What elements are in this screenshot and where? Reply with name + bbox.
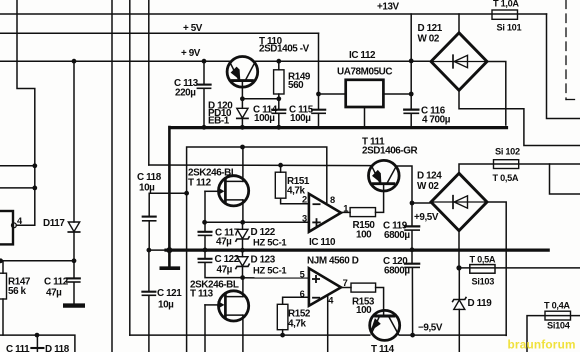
node C117 bus2 — [203, 248, 208, 253]
wire vertical x=148.8 to wire2 — [148, 0, 150, 165]
svg-text:4: 4 — [17, 216, 23, 226]
node IC112 in — [409, 92, 414, 97]
svg-text:47µ: 47µ — [217, 265, 233, 276]
wire T112 drain — [242, 147, 244, 181]
svg-text:D 124: D 124 — [417, 171, 442, 182]
zener D122 — [242, 222, 244, 229]
resistor R147 — [2, 261, 4, 273]
wire pin1 out to R150 — [341, 211, 350, 213]
op-amp IC110a — [309, 194, 341, 232]
ground drop thick — [168, 127, 171, 266]
wire fuse Si101 down right — [547, 14, 580, 119]
capacitor C116 — [410, 94, 412, 109]
resistor R152 — [277, 304, 288, 329]
svg-text:Si104: Si104 — [547, 321, 571, 331]
svg-text:47µ: 47µ — [216, 237, 232, 248]
node edge — [0, 258, 3, 263]
svg-text:HZ 5C-1: HZ 5C-1 — [253, 237, 286, 248]
fuse Si103 — [470, 265, 495, 274]
wire left to C112 node — [0, 260, 74, 262]
svg-text:C 121: C 121 — [157, 288, 182, 299]
svg-text:T 113: T 113 — [190, 289, 214, 300]
wire vertical x=112 full height — [111, 0, 113, 352]
dashed border — [565, 0, 567, 100]
IC box left edge — [0, 211, 13, 244]
svg-text:2SD1406-GR: 2SD1406-GR — [362, 146, 418, 157]
svg-text:C 111: C 111 — [6, 344, 30, 352]
svg-text:UA78M05UC: UA78M05UC — [337, 67, 392, 78]
node bus2 C119 — [410, 247, 415, 252]
node C114 bus — [276, 125, 281, 130]
svg-text:IC 110: IC 110 — [309, 237, 336, 248]
node R149 bottom — [276, 96, 281, 101]
svg-text:W 02: W 02 — [418, 34, 440, 45]
node R149 top — [276, 59, 281, 64]
node C111 — [35, 333, 40, 338]
wire pin row b — [0, 187, 35, 189]
wire T111 collector right — [396, 166, 412, 203]
svg-text:W 02: W 02 — [417, 181, 439, 192]
node C112 — [72, 258, 77, 263]
bridge rectifier D121 — [431, 33, 487, 91]
svg-text:100: 100 — [356, 230, 372, 241]
svg-text:+9,5V: +9,5V — [414, 212, 439, 223]
fuse Si104 — [527, 316, 580, 352]
wire D121 bottom out — [459, 90, 580, 145]
wire2 x148 corner to T111 — [149, 164, 371, 167]
ground below C112 — [65, 303, 83, 307]
node D120 bus — [240, 125, 245, 130]
svg-text:6800µ: 6800µ — [384, 230, 410, 241]
wire T113 source down — [242, 315, 244, 352]
svg-text:D117: D117 — [43, 218, 65, 229]
wire IC112 gnd — [364, 107, 366, 127]
wire base to R149 bottom — [242, 98, 278, 100]
wire D124 top to fuse Si102 — [459, 164, 580, 173]
svg-text:2SD1405 -V: 2SD1405 -V — [259, 44, 310, 55]
diode D117 — [68, 222, 79, 232]
capacitor C122 — [204, 250, 206, 258]
wire +9V rail right part — [256, 60, 432, 62]
svg-text:HZ 5C-1: HZ 5C-1 — [253, 265, 286, 276]
svg-text:T 1,0A: T 1,0A — [493, 0, 519, 9]
wire T112 source — [242, 200, 244, 222]
svg-text:T 114: T 114 — [371, 344, 395, 352]
svg-text:10µ: 10µ — [139, 183, 155, 194]
svg-text:braunforum: braunforum — [508, 338, 576, 352]
resistor R151 — [278, 163, 283, 168]
fuse Si102 — [494, 160, 519, 169]
node pin row b — [32, 186, 37, 191]
svg-text:D 119: D 119 — [468, 298, 493, 309]
node +9.5V — [410, 201, 415, 206]
svg-text:560: 560 — [288, 80, 304, 91]
wire R153 to T114 base — [376, 288, 384, 315]
svg-text:47µ: 47µ — [46, 288, 62, 299]
transistor T114 — [370, 310, 400, 340]
resistor R153 — [351, 283, 376, 292]
wire T113 drain up — [242, 278, 244, 297]
capacitor C115 — [318, 94, 320, 109]
wire R150 to T111 base — [376, 185, 384, 212]
svg-text:T 0,5A: T 0,5A — [493, 173, 519, 183]
wire pin6 to R152 — [283, 297, 309, 304]
rail -9.5V right of T114 — [400, 334, 507, 336]
ground bus 1 thick — [170, 126, 507, 129]
bus2 0V thin left — [149, 249, 168, 251]
svg-text:+ 9V: + 9V — [181, 48, 201, 59]
capacitor C119 — [411, 203, 413, 225]
diode D120 — [241, 99, 243, 109]
wire fuse Si103 — [459, 267, 580, 269]
wire T112 gate down — [204, 191, 206, 222]
wire1 +rail mid x186 — [187, 147, 327, 352]
wire D124 bottom — [458, 231, 460, 268]
capacitor C111 — [36, 335, 38, 347]
wire node to D124 — [412, 202, 431, 204]
node T112 drain top — [240, 145, 245, 150]
node wireA T112 source — [240, 220, 245, 225]
jog wire si102 out — [550, 164, 580, 194]
svg-text:4 700µ: 4 700µ — [422, 115, 451, 126]
svg-text:6800µ: 6800µ — [384, 266, 410, 277]
wire D123 node to pin5 — [243, 277, 309, 279]
pin 4 circle — [12, 223, 17, 228]
svg-text:+ 5V: + 5V — [183, 23, 203, 34]
node bus2 ground drop — [166, 247, 172, 253]
svg-text:Si 101: Si 101 — [497, 23, 522, 33]
wire +13V top rail y=14 — [0, 13, 547, 15]
JFET T112 — [219, 176, 249, 206]
svg-text:D 118: D 118 — [45, 344, 70, 352]
svg-text:C 118: C 118 — [137, 172, 162, 183]
wire D124 right down — [487, 202, 506, 335]
resistor R150 — [350, 208, 375, 217]
wire T110 base — [241, 82, 243, 99]
node R152 rail — [280, 333, 285, 338]
node 13V-9V junction — [409, 59, 414, 64]
svg-text:Si 102: Si 102 — [495, 147, 520, 157]
svg-text:NJM 4560 D: NJM 4560 D — [307, 256, 359, 267]
svg-text:100µ: 100µ — [290, 113, 311, 124]
svg-text:6: 6 — [300, 289, 305, 299]
capacitor C112 — [73, 261, 75, 278]
node pin row a — [32, 163, 37, 168]
op-amp IC110b — [309, 268, 341, 306]
svg-text:EB-1: EB-1 — [208, 116, 230, 127]
node +9V to D117 — [72, 59, 77, 64]
node C113 top — [202, 59, 207, 64]
node C118 top — [184, 191, 189, 196]
svg-text:1: 1 — [343, 204, 348, 214]
svg-text:T 112: T 112 — [188, 178, 212, 189]
wire pin2 from R151 — [281, 198, 309, 204]
wire pin7 out to R153 — [341, 287, 351, 289]
node C113 bus — [202, 125, 207, 130]
node T110 base — [240, 96, 245, 101]
svg-text:C 112: C 112 — [44, 277, 69, 288]
transistor T111 — [369, 160, 400, 191]
wire +5V rail y=33 — [0, 32, 319, 34]
node D122 bus2 — [240, 248, 245, 253]
svg-text:Si103: Si103 — [472, 277, 495, 287]
capacitor C118 — [149, 193, 186, 216]
wire IC112 in right — [383, 93, 411, 95]
wire +9V rail y=61 — [0, 60, 230, 62]
node C118 bottom bus2 — [147, 248, 152, 253]
wire vertical x=130 to bottom rail — [129, 0, 131, 335]
capacitor C114 — [278, 99, 280, 109]
wire +5V down branch x=318.5 — [318, 33, 320, 94]
svg-text:220µ: 220µ — [175, 88, 196, 99]
wire D117 to C112 node — [73, 233, 75, 261]
svg-text:7: 7 — [343, 278, 348, 288]
svg-text:3: 3 — [302, 213, 307, 223]
bus2 0V thick — [166, 249, 548, 252]
node C120 rail — [410, 333, 415, 338]
bridge rectifier D124 — [431, 173, 487, 230]
fuse Si101 — [492, 10, 518, 19]
svg-text:2: 2 — [302, 194, 307, 204]
zener D119 — [458, 268, 460, 299]
wire D121 top to fuse rail — [458, 14, 460, 33]
wire A to pin3 — [204, 221, 309, 223]
svg-text:8: 8 — [330, 195, 335, 205]
rail -9.5V main — [130, 334, 370, 336]
node D123 T113 drain — [240, 275, 245, 280]
svg-text:IC 112: IC 112 — [349, 50, 376, 61]
svg-text:−9,5V: −9,5V — [418, 323, 443, 334]
JFET T113 — [219, 291, 249, 321]
resistor R149 — [278, 61, 280, 70]
svg-text:4,7k: 4,7k — [288, 319, 307, 330]
svg-text:D 121: D 121 — [418, 23, 443, 34]
svg-text:T 0,4A: T 0,4A — [544, 301, 570, 311]
svg-text:10µ: 10µ — [158, 300, 174, 311]
svg-text:56 k: 56 k — [8, 286, 27, 297]
capacitor C121 — [148, 250, 150, 291]
wire D117 branch — [73, 61, 75, 222]
node IC112 out — [316, 92, 321, 97]
svg-text:100: 100 — [356, 305, 372, 316]
svg-text:100µ: 100µ — [254, 113, 275, 124]
wire IC112 out left — [319, 93, 346, 95]
svg-text:5: 5 — [300, 269, 305, 279]
capacitor C113 — [203, 61, 205, 84]
rail -9.5V left segment — [0, 335, 75, 352]
op-amp supply IC112 box — [346, 80, 384, 107]
svg-text:4: 4 — [328, 296, 334, 306]
transistor T110 — [227, 57, 258, 88]
wire D121 right to bus1 — [487, 62, 506, 126]
wire +13V branch down — [410, 14, 412, 94]
svg-text:C 122: C 122 — [215, 254, 240, 265]
svg-text:+13V: +13V — [377, 2, 400, 13]
node minus out — [456, 265, 461, 270]
zener D123 — [242, 250, 244, 257]
wire pin row a — [0, 165, 35, 167]
wire T113 gate down — [204, 305, 206, 352]
wire pin4 down — [327, 295, 329, 352]
capacitor C120 — [411, 250, 413, 263]
ground bar — [161, 266, 178, 270]
wire vertical x=17 top left — [17, 0, 35, 225]
capacitor C117 — [204, 222, 206, 231]
svg-text:T 0,5A: T 0,5A — [470, 254, 496, 264]
node wireA C117 — [202, 220, 207, 225]
